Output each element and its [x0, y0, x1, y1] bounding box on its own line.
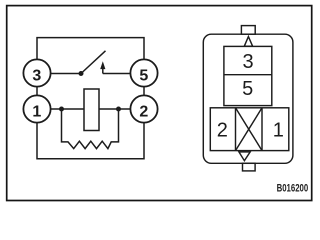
svg-text:3: 3	[32, 68, 41, 85]
svg-text:B016200: B016200	[277, 182, 309, 195]
svg-text:2: 2	[217, 120, 228, 142]
svg-text:1: 1	[273, 120, 284, 142]
svg-text:3: 3	[243, 51, 254, 73]
svg-text:2: 2	[139, 104, 148, 121]
svg-text:5: 5	[139, 68, 148, 85]
svg-text:1: 1	[32, 104, 41, 121]
svg-text:5: 5	[242, 78, 253, 100]
